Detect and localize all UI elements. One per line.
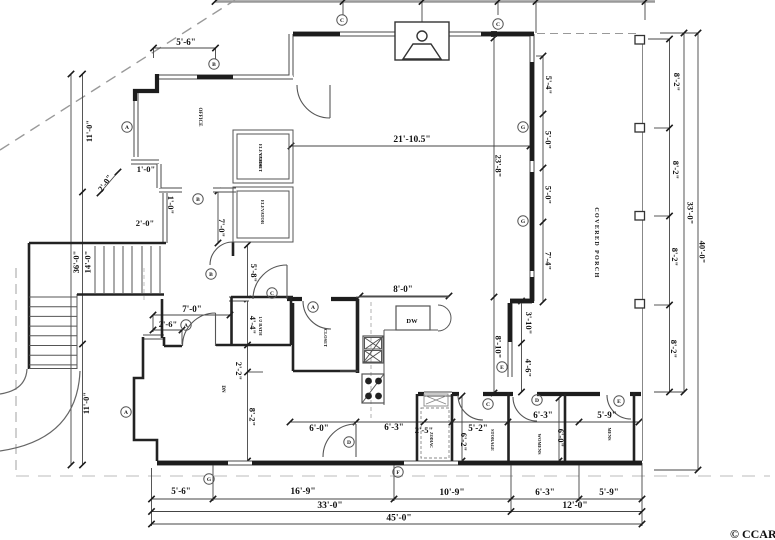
- svg-text:DN: DN: [220, 385, 225, 393]
- svg-text:6'-3": 6'-3": [535, 487, 555, 497]
- svg-text:© CCAR: © CCAR: [730, 527, 775, 540]
- svg-text:2'-2": 2'-2": [234, 362, 244, 380]
- svg-text:1'-0": 1'-0": [137, 164, 155, 174]
- svg-text:40'-0": 40'-0": [698, 241, 708, 264]
- svg-text:11'-0": 11'-0": [84, 120, 94, 142]
- svg-text:C: C: [340, 18, 344, 24]
- svg-text:33'-0": 33'-0": [317, 501, 342, 511]
- svg-text:D: D: [535, 398, 539, 404]
- svg-text:STORAGE: STORAGE: [490, 429, 495, 451]
- svg-text:7'-4": 7'-4": [544, 252, 554, 270]
- svg-text:6'-2": 6'-2": [459, 433, 469, 451]
- svg-text:8'-2": 8'-2": [670, 248, 680, 266]
- svg-text:8'-2": 8'-2": [248, 408, 258, 426]
- svg-text:23'-8": 23'-8": [494, 155, 504, 178]
- svg-text:6'-3": 6'-3": [533, 410, 553, 420]
- svg-text:8'-2": 8'-2": [671, 161, 681, 179]
- svg-text:16'-9": 16'-9": [290, 487, 315, 497]
- svg-text:2'-6": 2'-6": [159, 319, 177, 329]
- svg-text:WOMENS: WOMENS: [537, 433, 542, 454]
- svg-text:DW: DW: [406, 318, 418, 325]
- svg-text:7'-0": 7'-0": [182, 304, 202, 314]
- svg-text:8'-10": 8'-10": [494, 336, 504, 359]
- svg-text:ELEVATOR: ELEVATOR: [260, 200, 265, 225]
- svg-text:12'-0": 12'-0": [562, 501, 587, 511]
- svg-text:CLOSET: CLOSET: [323, 329, 328, 347]
- svg-text:5'-4": 5'-4": [544, 76, 554, 94]
- svg-text:B: B: [212, 62, 216, 68]
- svg-text:5'-0": 5'-0": [544, 131, 554, 149]
- svg-text:MENS: MENS: [607, 427, 612, 440]
- svg-text:1/2 BATH: 1/2 BATH: [258, 316, 263, 336]
- svg-text:G: G: [521, 125, 526, 131]
- svg-text:OFFICE: OFFICE: [197, 108, 202, 128]
- svg-text:1'-0": 1'-0": [166, 196, 176, 214]
- svg-text:8'-0": 8'-0": [393, 284, 413, 294]
- svg-text:C: C: [270, 291, 274, 297]
- svg-text:G: G: [207, 477, 212, 483]
- svg-text:5'-6": 5'-6": [176, 37, 196, 47]
- svg-text:E: E: [500, 365, 504, 371]
- svg-text:A: A: [311, 305, 315, 311]
- svg-text:C: C: [496, 22, 500, 28]
- svg-text:5'-0": 5'-0": [544, 186, 554, 204]
- svg-text:6'-0": 6'-0": [309, 423, 329, 433]
- svg-text:45'-0": 45'-0": [386, 514, 411, 524]
- svg-text:7'-0": 7'-0": [217, 219, 227, 237]
- svg-text:5'-6": 5'-6": [171, 486, 191, 496]
- svg-text:B: B: [196, 197, 200, 203]
- svg-text:A: A: [184, 323, 188, 329]
- svg-text:4'-6": 4'-6": [524, 359, 534, 377]
- svg-text:A: A: [125, 125, 129, 131]
- svg-text:6'-3": 6'-3": [384, 422, 404, 432]
- svg-text:CLOSET: CLOSET: [258, 154, 263, 172]
- svg-text:3'-10": 3'-10": [524, 312, 534, 335]
- svg-text:2'-0": 2'-0": [136, 218, 154, 228]
- svg-text:B: B: [209, 272, 213, 278]
- svg-text:COVERED PORCH: COVERED PORCH: [593, 207, 599, 278]
- svg-text:ZODIAC: ZODIAC: [429, 432, 434, 448]
- svg-text:33'-0": 33'-0": [686, 202, 696, 225]
- svg-text:5'-8": 5'-8": [249, 264, 259, 282]
- svg-text:14'-0": 14'-0": [83, 251, 93, 274]
- svg-text:5'-9": 5'-9": [599, 487, 619, 497]
- svg-text:6'-0": 6'-0": [556, 429, 566, 447]
- svg-text:21'-10.5": 21'-10.5": [393, 135, 430, 145]
- svg-text:10'-9": 10'-9": [439, 488, 464, 498]
- svg-text:E: E: [617, 399, 621, 405]
- svg-text:A: A: [124, 410, 128, 416]
- svg-text:36'-0": 36'-0": [71, 251, 81, 274]
- svg-text:G: G: [521, 219, 526, 225]
- svg-text:8'-2": 8'-2": [672, 73, 682, 91]
- svg-text:5'-9": 5'-9": [597, 410, 617, 420]
- svg-text:C: C: [486, 402, 490, 408]
- svg-text:5'-2": 5'-2": [468, 423, 488, 433]
- svg-text:8'-2": 8'-2": [669, 340, 679, 358]
- svg-text:D: D: [347, 440, 351, 446]
- svg-text:11'-0": 11'-0": [81, 392, 91, 414]
- svg-text:4'-4": 4'-4": [248, 316, 258, 334]
